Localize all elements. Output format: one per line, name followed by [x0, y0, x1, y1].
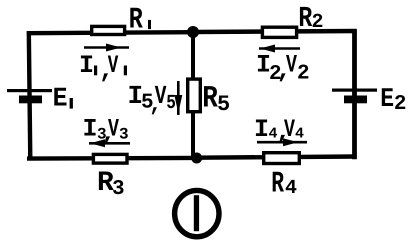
current arrow I1 — [84, 44, 129, 52]
svg-text:R: R — [202, 82, 218, 117]
label I5,V5 — [128, 81, 176, 118]
svg-text:E: E — [380, 85, 394, 115]
svg-text:3: 3 — [112, 178, 125, 201]
svg-text:2: 2 — [394, 93, 407, 116]
current arrow I3 — [89, 139, 130, 147]
svg-text:3: 3 — [119, 126, 129, 144]
svg-text:I: I — [254, 115, 269, 144]
resistor R5 — [188, 79, 201, 112]
svg-text:4: 4 — [295, 126, 304, 143]
battery E1 — [7, 89, 52, 103]
label R5 — [202, 82, 230, 118]
label R3 — [97, 168, 125, 201]
svg-text:I: I — [79, 51, 94, 80]
label R4 — [271, 168, 297, 202]
resistor R2 — [262, 27, 296, 37]
label I3,V3 — [83, 115, 129, 149]
label E2 — [380, 85, 406, 116]
resistor R1 — [92, 26, 125, 34]
current arrow I4 — [257, 138, 307, 146]
label R1 — [129, 4, 151, 38]
svg-text:2: 2 — [312, 11, 324, 34]
svg-text:V: V — [155, 81, 167, 111]
wire top-left segment — [27, 32, 193, 33]
resistor R3 — [93, 154, 127, 163]
battery E2 — [332, 89, 377, 104]
figure number symbol (circled 1) — [175, 190, 219, 236]
svg-text:V: V — [108, 115, 119, 144]
resistor R4 — [264, 153, 300, 164]
label R2 — [298, 2, 323, 35]
wire top-right segment — [193, 31, 357, 32]
svg-text:R: R — [271, 168, 284, 202]
current arrow I5 — [174, 81, 182, 115]
svg-text:V: V — [284, 115, 295, 144]
label I1,V1 — [79, 51, 127, 85]
node B (bottom junction dot) — [191, 153, 202, 164]
wire bottom-right segment — [196, 157, 357, 158]
node A (top junction dot) — [187, 26, 199, 38]
svg-text:V: V — [108, 51, 119, 80]
svg-text:2: 2 — [297, 63, 310, 86]
current arrow I2 — [259, 45, 300, 53]
label E1 — [53, 85, 73, 115]
svg-text:E: E — [53, 85, 68, 115]
svg-text:I: I — [83, 115, 98, 144]
svg-text:4: 4 — [285, 177, 297, 200]
svg-text:V: V — [286, 51, 297, 80]
svg-text:R: R — [129, 4, 143, 38]
wire bottom-left segment — [27, 156, 196, 161]
svg-text:5: 5 — [217, 92, 230, 117]
wire right branch — [352, 29, 357, 159]
wire middle branch — [191, 32, 195, 158]
label I2,V2 — [256, 51, 310, 87]
wire left branch — [29, 31, 31, 160]
label I4,V4 — [254, 115, 304, 147]
svg-text:5: 5 — [166, 92, 176, 115]
